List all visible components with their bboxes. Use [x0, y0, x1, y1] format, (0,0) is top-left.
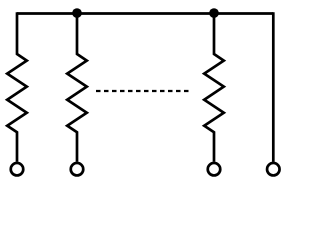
terminal pin 2 — [71, 163, 84, 176]
ellipsis dotted line (continuation) — [96, 90, 189, 92]
resistor Rn — [204, 14, 224, 162]
node junction dot left — [72, 8, 82, 18]
top bus wire — [17, 12, 273, 15]
terminal pin n — [208, 163, 221, 176]
wire right common lead — [272, 12, 275, 162]
node junction dot right — [209, 8, 219, 18]
terminal pin 1 — [11, 163, 24, 176]
resistor R1 — [7, 12, 27, 162]
terminal pin common — [267, 163, 280, 176]
resistor R2 — [67, 14, 87, 162]
